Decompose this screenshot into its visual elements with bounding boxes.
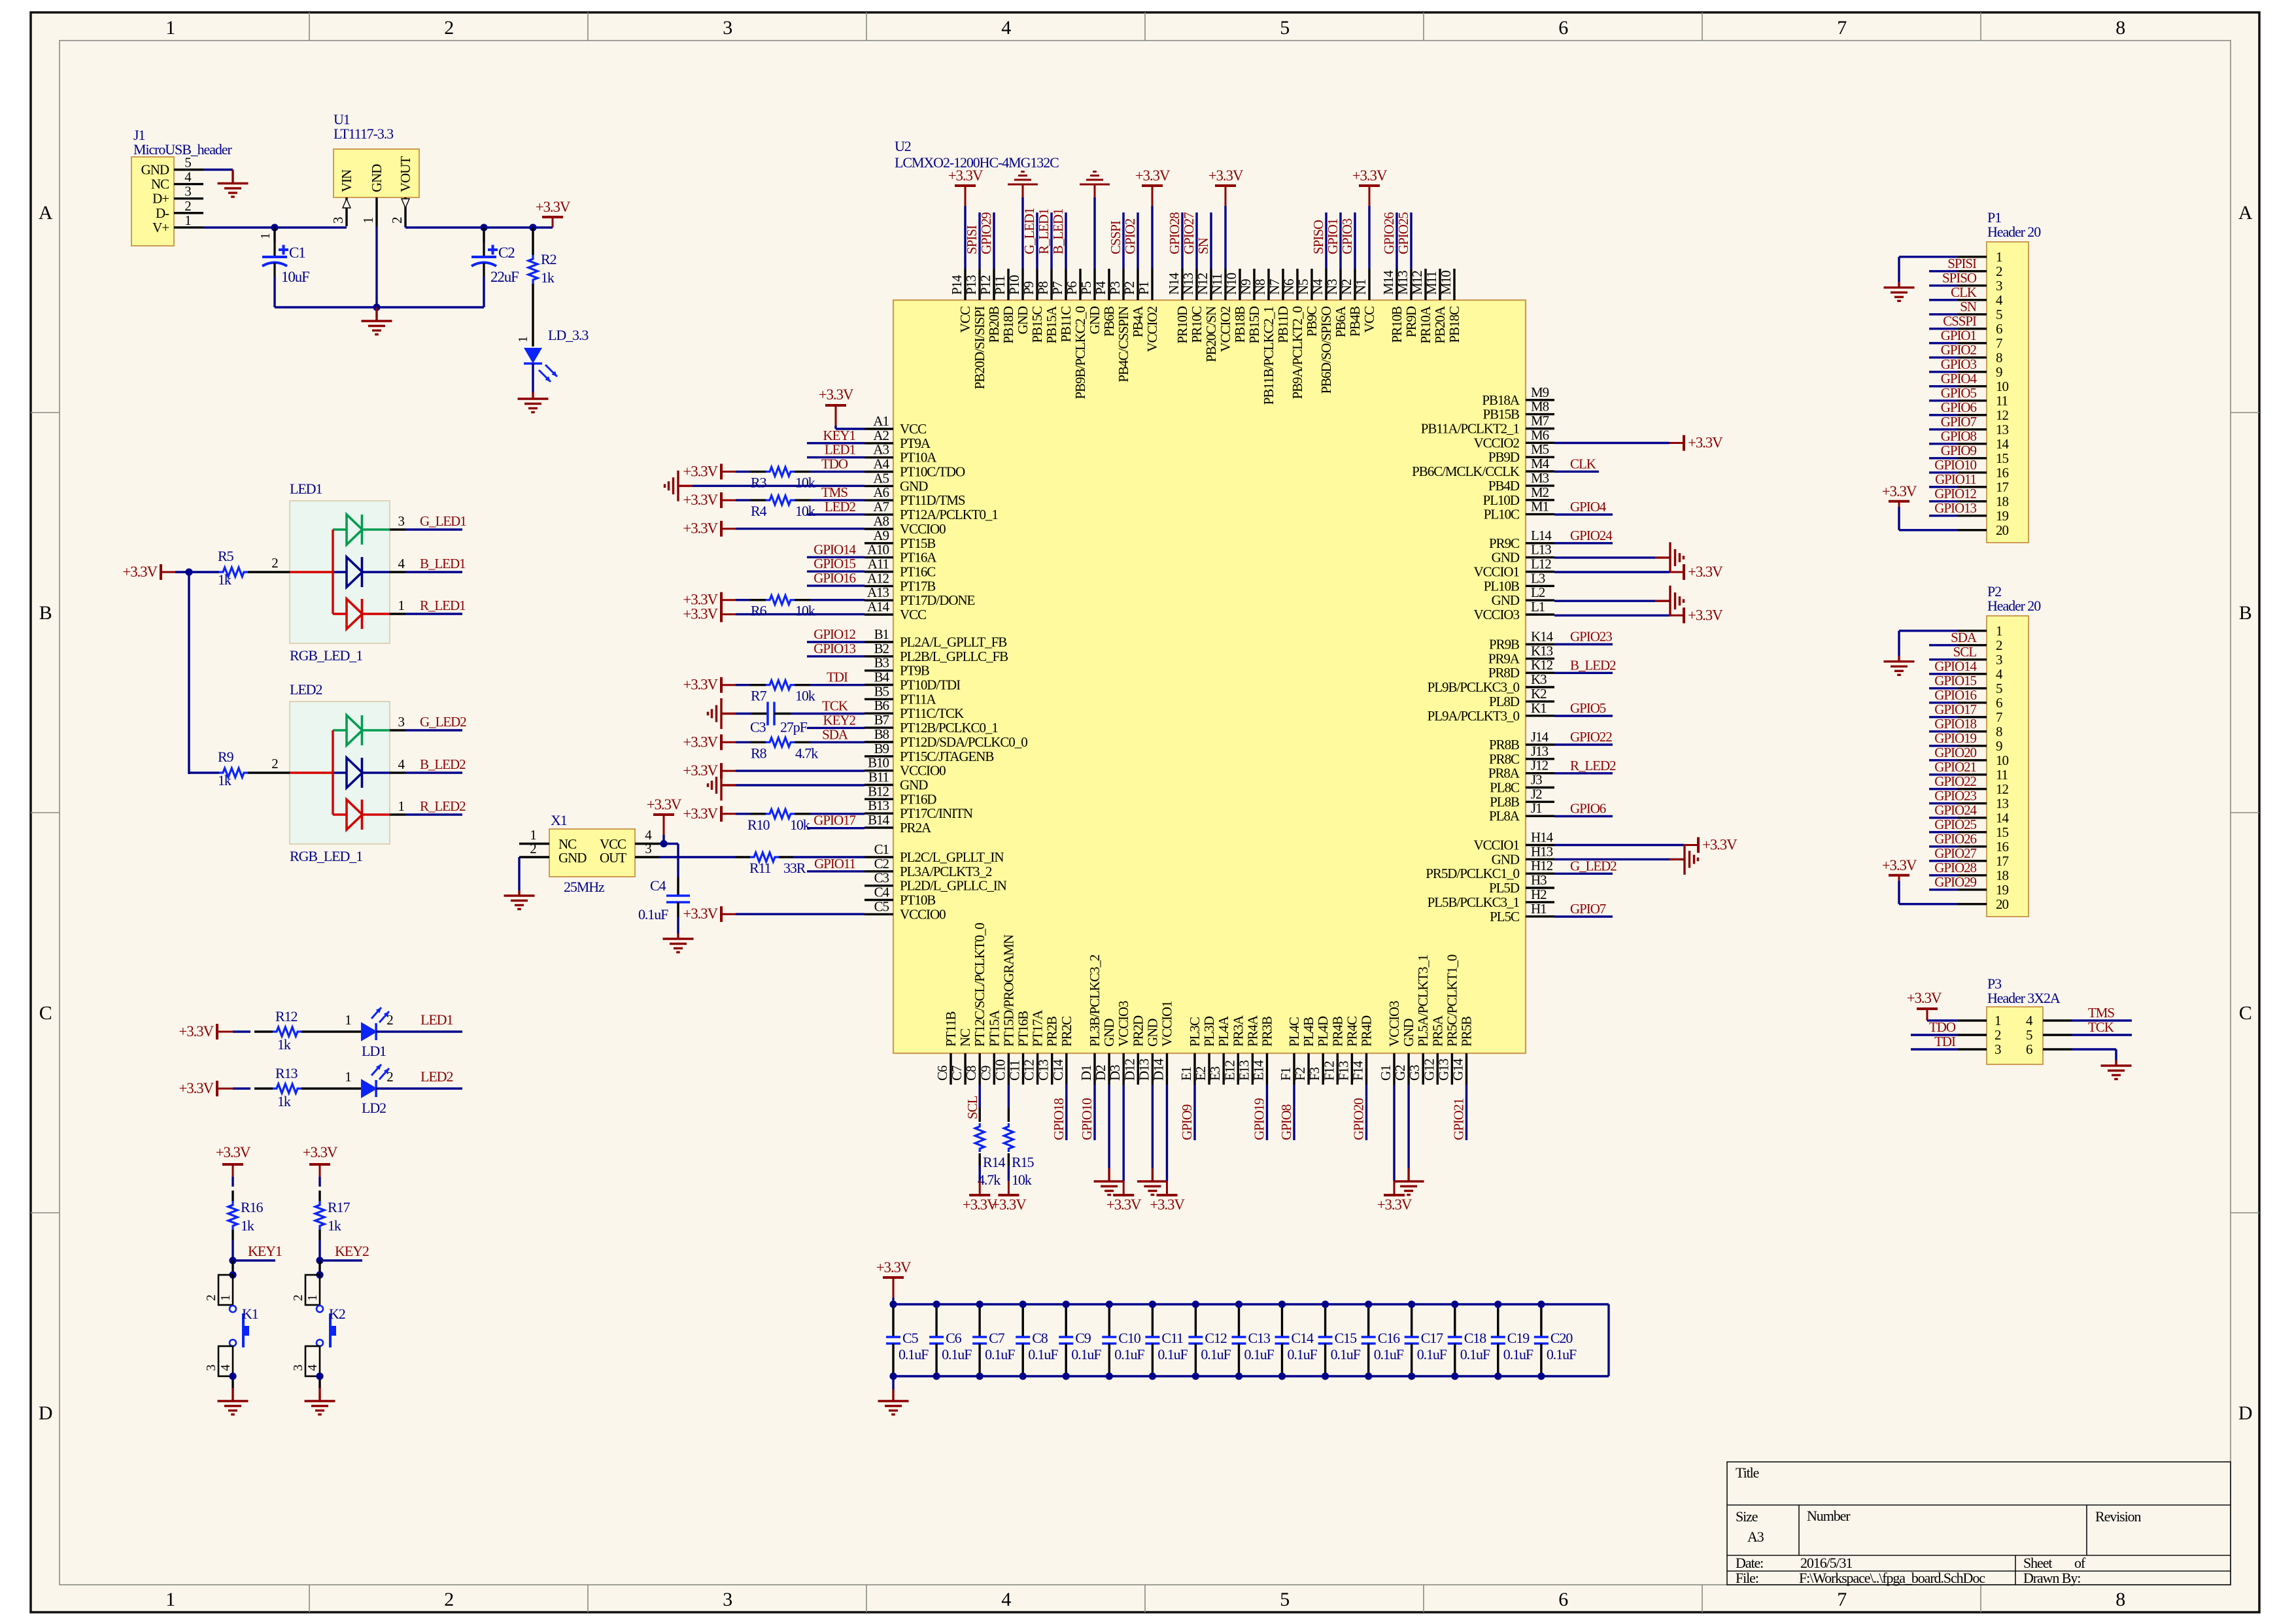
svg-text:D: D <box>39 1402 52 1424</box>
svg-text:LED2: LED2 <box>290 681 322 698</box>
pin E3 (PL4A) <box>1207 1015 1231 1085</box>
pin 13 <box>1958 422 2008 437</box>
junction <box>1365 1300 1372 1308</box>
power +3.3V <box>721 741 736 743</box>
pin M10 (PB18C) <box>1438 269 1462 343</box>
svg-text:+3.3V: +3.3V <box>683 905 718 922</box>
svg-text:P13: P13 <box>963 275 979 295</box>
ground <box>1898 282 1900 288</box>
svg-text:E14: E14 <box>1251 1060 1267 1081</box>
svg-text:3: 3 <box>1994 1041 2001 1057</box>
svg-text:C14: C14 <box>1050 1059 1066 1081</box>
svg-text:PL8A: PL8A <box>1489 808 1520 824</box>
wire B11 GND <box>736 784 865 786</box>
svg-text:K3: K3 <box>1531 671 1547 687</box>
svg-text:PR8D: PR8D <box>1488 665 1520 681</box>
svg-text:GND: GND <box>558 850 587 866</box>
svg-text:C5: C5 <box>902 1330 919 1346</box>
svg-text:D13: D13 <box>1136 1058 1152 1081</box>
svg-text:0.1uF: 0.1uF <box>1028 1346 1058 1362</box>
svg-text:33R: 33R <box>783 860 806 876</box>
svg-text:+3.3V: +3.3V <box>1688 435 1723 451</box>
svg-text:5: 5 <box>1996 681 2002 696</box>
svg-text:G_LED1: G_LED1 <box>1021 208 1037 254</box>
pin H1 (PL5C) <box>1490 901 1554 924</box>
wire pin1 to ground <box>1899 630 1958 632</box>
svg-text:N5: N5 <box>1295 279 1311 295</box>
svg-text:PB4D: PB4D <box>1488 478 1520 494</box>
pin M14 (PR10B) <box>1380 269 1405 343</box>
svg-text:PT12A/PCLKT0_1: PT12A/PCLKT0_1 <box>900 507 998 522</box>
svg-text:GPIO4: GPIO4 <box>1570 499 1607 515</box>
pin C11 (PT16B) <box>1007 1011 1031 1085</box>
svg-text:+3.3V: +3.3V <box>216 1144 251 1160</box>
svg-text:PR8B: PR8B <box>1489 737 1519 753</box>
svg-text:+3.3V: +3.3V <box>1882 483 1917 499</box>
svg-text:C7: C7 <box>989 1330 1005 1346</box>
svg-text:H13: H13 <box>1531 843 1553 859</box>
svg-text:PB9B/PCLKC2_0: PB9B/PCLKC2_0 <box>1072 306 1088 399</box>
svg-text:F14: F14 <box>1350 1060 1366 1081</box>
svg-text:6: 6 <box>1558 17 1568 39</box>
svg-text:P3: P3 <box>1107 281 1123 295</box>
pin E14 (PR3B) <box>1251 1017 1275 1085</box>
pin P6 (PB9B/PCLKC2_0) <box>1064 269 1088 399</box>
svg-text:PL3C: PL3C <box>1187 1017 1203 1047</box>
svg-text:PL3B/PCLKC3_2: PL3B/PCLKC3_2 <box>1087 955 1103 1047</box>
svg-text:LED2: LED2 <box>420 1068 453 1085</box>
svg-text:19: 19 <box>1996 508 2008 524</box>
resistor R6 10k <box>736 596 865 619</box>
svg-text:PB6C/MCLK/CCLK: PB6C/MCLK/CCLK <box>1412 464 1520 479</box>
pin 12 <box>1958 781 2008 797</box>
svg-text:+3.3V: +3.3V <box>683 762 718 779</box>
svg-text:PR9D: PR9D <box>1403 306 1419 337</box>
svg-text:A12: A12 <box>867 570 889 586</box>
svg-text:LD2: LD2 <box>362 1100 386 1116</box>
svg-text:SN: SN <box>1195 237 1211 254</box>
svg-text:9: 9 <box>1996 738 2002 754</box>
svg-text:KEY1: KEY1 <box>248 1243 282 1259</box>
RGB LED LED2 <box>290 681 405 864</box>
svg-text:R_LED2: R_LED2 <box>420 798 466 814</box>
svg-text:N3: N3 <box>1324 279 1340 295</box>
svg-text:C: C <box>39 1002 52 1024</box>
pin 16 <box>1958 465 2008 481</box>
junction <box>1322 1300 1329 1308</box>
svg-text:C12: C12 <box>1205 1330 1226 1346</box>
svg-text:PB20C/SN: PB20C/SN <box>1203 306 1219 362</box>
svg-text:PL10B: PL10B <box>1484 578 1519 594</box>
power +3.3V <box>552 217 554 228</box>
svg-text:GND: GND <box>1087 306 1103 334</box>
resistor R12 1k <box>233 1008 320 1053</box>
svg-text:H3: H3 <box>1531 872 1547 888</box>
ground <box>678 485 693 487</box>
pin N9 (PB15D) <box>1238 269 1262 344</box>
pin B13 (PT17C/INITN) <box>865 798 973 821</box>
svg-text:GND: GND <box>1401 1019 1416 1047</box>
svg-text:GPIO13: GPIO13 <box>813 641 855 656</box>
pin 5 <box>1958 307 2002 322</box>
svg-text:C6: C6 <box>946 1330 962 1346</box>
svg-text:B6: B6 <box>874 698 889 713</box>
resistor R7 10k <box>736 681 865 704</box>
svg-text:TDI: TDI <box>1934 1034 1956 1049</box>
junction <box>1494 1300 1501 1308</box>
svg-text:10k: 10k <box>1012 1172 1032 1188</box>
resistor R4 10k <box>736 496 865 519</box>
svg-text:PT12B/PCLKC0_1: PT12B/PCLKC0_1 <box>900 720 998 736</box>
capacitor C12 0.1uF <box>1188 1304 1231 1376</box>
power +3.3V <box>835 405 837 426</box>
pin P4 (PB6B) <box>1093 269 1117 337</box>
svg-text:1k: 1k <box>328 1217 341 1234</box>
junction <box>1063 1300 1070 1308</box>
svg-text:C20: C20 <box>1550 1330 1573 1346</box>
svg-text:P4: P4 <box>1093 280 1108 295</box>
wire H13 GND <box>1554 858 1669 860</box>
pin M9 (PB18A) <box>1482 384 1554 408</box>
ground <box>1021 197 1023 269</box>
svg-text:PR4B: PR4B <box>1329 1017 1345 1047</box>
svg-text:GPIO17: GPIO17 <box>813 813 855 828</box>
svg-text:A6: A6 <box>873 484 889 500</box>
svg-text:R8: R8 <box>751 745 767 761</box>
svg-text:PT16D: PT16D <box>900 791 936 807</box>
svg-text:P1: P1 <box>1136 281 1152 295</box>
pin C10 (PT15D/PROGRAMN) <box>992 934 1016 1085</box>
svg-text:GPIO27: GPIO27 <box>1934 845 1976 861</box>
svg-text:4: 4 <box>398 756 405 772</box>
pin 4 <box>1958 666 2003 682</box>
svg-text:C3: C3 <box>874 870 889 886</box>
svg-text:8: 8 <box>2115 1589 2125 1610</box>
svg-text:PR5B: PR5B <box>1459 1017 1475 1047</box>
svg-text:PT16A: PT16A <box>900 550 937 566</box>
svg-text:M1: M1 <box>1531 499 1549 515</box>
svg-text:SCL: SCL <box>965 1096 980 1119</box>
svg-text:R10: R10 <box>747 817 770 833</box>
svg-text:GPIO16: GPIO16 <box>813 570 855 586</box>
svg-text:PR10D: PR10D <box>1174 306 1190 343</box>
svg-text:C9: C9 <box>978 1066 993 1081</box>
svg-text:PT17B: PT17B <box>900 578 935 594</box>
svg-text:GPIO7: GPIO7 <box>1941 414 1977 430</box>
svg-text:VCC: VCC <box>1361 307 1377 333</box>
svg-text:C19: C19 <box>1507 1330 1530 1346</box>
svg-text:C4: C4 <box>874 885 890 900</box>
svg-text:+3.3V: +3.3V <box>1688 564 1723 580</box>
LED LD1 <box>320 1007 393 1059</box>
svg-text:+3.3V: +3.3V <box>1688 607 1723 623</box>
capacitor C19 0.1uF <box>1491 1304 1533 1376</box>
svg-text:R5: R5 <box>218 548 234 564</box>
svg-text:B11: B11 <box>868 770 889 785</box>
svg-text:C10: C10 <box>1118 1330 1140 1346</box>
svg-text:D2: D2 <box>1093 1065 1108 1081</box>
power +3.3V <box>1225 186 1227 206</box>
pin 13 <box>1958 796 2008 811</box>
svg-text:1k: 1k <box>277 1093 291 1109</box>
svg-text:A10: A10 <box>867 542 889 558</box>
svg-text:PT11C/TCK: PT11C/TCK <box>900 705 964 721</box>
svg-text:C14: C14 <box>1292 1330 1314 1346</box>
wire OUT to R11 <box>659 856 736 858</box>
svg-text:PT15D/PROGRAMN: PT15D/PROGRAMN <box>1001 934 1016 1047</box>
svg-text:R3: R3 <box>751 474 767 490</box>
svg-text:C: C <box>2239 1002 2251 1024</box>
svg-text:VCCIO3: VCCIO3 <box>1386 1001 1402 1047</box>
pin K3 (PL9B/PCLKC3_0) <box>1428 671 1554 695</box>
pin labels LED1 <box>398 513 467 614</box>
pin 3 <box>1958 652 2002 668</box>
svg-text:5: 5 <box>184 155 191 171</box>
wire U1 GND <box>375 226 377 307</box>
junction <box>1278 1300 1286 1308</box>
svg-text:P8: P8 <box>1035 281 1051 295</box>
svg-text:PB18C: PB18C <box>1447 307 1462 343</box>
svg-text:K1: K1 <box>1531 700 1547 716</box>
svg-text:GPIO3: GPIO3 <box>1941 356 1977 372</box>
svg-text:K12: K12 <box>1531 657 1553 673</box>
LED LD2 <box>320 1064 393 1116</box>
svg-text:M10: M10 <box>1438 271 1454 295</box>
svg-text:C2: C2 <box>498 245 515 261</box>
svg-text:PL5C: PL5C <box>1490 909 1519 924</box>
pin A13 (PT17D/DONE) <box>865 584 975 608</box>
svg-text:PL9A/PCLKT3_0: PL9A/PCLKT3_0 <box>1428 708 1520 724</box>
svg-text:GPIO23: GPIO23 <box>1934 788 1976 804</box>
svg-text:G12: G12 <box>1421 1058 1437 1081</box>
LED LD_3.3 <box>516 327 589 392</box>
svg-text:2: 2 <box>291 1295 305 1301</box>
svg-text:L2: L2 <box>1531 584 1545 600</box>
resistor R2 1k <box>528 228 556 347</box>
svg-text:F13: F13 <box>1335 1061 1351 1081</box>
svg-text:4: 4 <box>1996 292 2003 308</box>
svg-text:KEY2: KEY2 <box>335 1243 369 1259</box>
wire C5 VCCIO0 <box>736 913 865 915</box>
junction <box>271 224 278 231</box>
svg-text:PR8A: PR8A <box>1488 766 1520 781</box>
svg-text:GPIO9: GPIO9 <box>1179 1104 1195 1140</box>
svg-text:G1: G1 <box>1378 1065 1394 1081</box>
svg-text:20: 20 <box>1996 896 2008 912</box>
svg-text:+3.3V: +3.3V <box>122 564 158 580</box>
svg-text:A11: A11 <box>868 556 889 572</box>
svg-text:+3.3V: +3.3V <box>683 463 718 479</box>
svg-text:PB20A: PB20A <box>1432 305 1448 343</box>
pin C12 (PT17A) <box>1021 1009 1046 1085</box>
pin E13 (PR4A) <box>1236 1015 1260 1085</box>
svg-text:3: 3 <box>398 714 405 730</box>
svg-text:4: 4 <box>1996 666 2003 682</box>
svg-text:E3: E3 <box>1207 1066 1223 1081</box>
svg-text:GPIO26: GPIO26 <box>1381 212 1397 254</box>
svg-text:1: 1 <box>258 233 273 239</box>
svg-text:Header 20: Header 20 <box>1987 598 2041 614</box>
pin C2 (PL3A/PCLKT3_2) <box>865 856 992 879</box>
wire V+ <box>203 226 347 228</box>
svg-text:PR5A: PR5A <box>1429 1015 1445 1047</box>
pin K14 (PR9B) <box>1489 629 1554 652</box>
pin M5 (PB9D) <box>1488 441 1554 465</box>
svg-text:PL2B/L_GPLLC_FB: PL2B/L_GPLLC_FB <box>900 649 1008 664</box>
svg-text:PT11A: PT11A <box>900 691 937 707</box>
pin A4 (PT10C/TDO) <box>865 456 965 480</box>
pin K13 (PR9A) <box>1488 643 1554 666</box>
capacitor C17 0.1uF <box>1405 1304 1447 1376</box>
svg-text:GPIO10: GPIO10 <box>1079 1098 1095 1140</box>
svg-text:D+: D+ <box>152 191 169 207</box>
pin 17 <box>1958 853 2008 869</box>
svg-text:KEY1: KEY1 <box>823 428 856 443</box>
pin C4 (PT10B) <box>865 885 935 908</box>
svg-text:R7: R7 <box>751 688 767 704</box>
svg-text:P6: P6 <box>1064 281 1080 295</box>
pin B10 (VCCIO0) <box>865 755 946 779</box>
svg-text:GPIO17: GPIO17 <box>1934 702 1976 717</box>
svg-text:PR9A: PR9A <box>1488 651 1520 666</box>
pin B9 (PT15C/JTAGENB) <box>865 741 993 764</box>
svg-text:TDI: TDI <box>827 669 848 685</box>
svg-text:J1: J1 <box>1531 800 1542 816</box>
svg-text:+3.3V: +3.3V <box>179 1023 214 1040</box>
pin A2 (PT9A) <box>865 428 931 451</box>
svg-text:7: 7 <box>1837 1589 1847 1610</box>
pin H3 (PL5D) <box>1489 872 1554 896</box>
pin 8 <box>1958 350 2002 365</box>
pin 10 <box>1958 753 2008 768</box>
svg-text:0.1uF: 0.1uF <box>1547 1346 1577 1362</box>
svg-text:0.1uF: 0.1uF <box>1503 1346 1533 1362</box>
pin 7 <box>1958 335 2002 351</box>
pin B11 (GND) <box>865 770 928 793</box>
capacitor C3 27pF <box>736 702 865 736</box>
junction <box>976 1300 984 1308</box>
wire X1 GND <box>518 857 520 890</box>
pin E12 (PR3A) <box>1222 1015 1246 1085</box>
svg-text:PB11B/PCLKC2_1: PB11B/PCLKC2_1 <box>1261 306 1276 405</box>
svg-text:G_LED2: G_LED2 <box>1570 858 1617 873</box>
ground <box>1152 1168 1154 1181</box>
svg-text:2: 2 <box>1994 1027 2001 1043</box>
pin J12 (PR8A) <box>1488 758 1554 781</box>
svg-text:GPIO19: GPIO19 <box>1252 1098 1267 1140</box>
svg-text:8: 8 <box>2115 17 2125 39</box>
svg-text:J14: J14 <box>1531 729 1549 745</box>
power +3.3V <box>721 599 736 601</box>
svg-text:D12: D12 <box>1121 1058 1137 1081</box>
pin P12 (PB20B) <box>978 269 1002 343</box>
svg-text:+3.3V: +3.3V <box>876 1259 912 1276</box>
svg-text:K14: K14 <box>1531 629 1554 645</box>
svg-text:GPIO14: GPIO14 <box>813 541 856 557</box>
svg-text:1: 1 <box>345 1012 351 1028</box>
svg-text:PR5C/PCLKT1_0: PR5C/PCLKT1_0 <box>1444 955 1460 1047</box>
svg-text:C11: C11 <box>1007 1060 1023 1081</box>
svg-text:PT9A: PT9A <box>900 435 931 451</box>
svg-text:PR8C: PR8C <box>1489 751 1519 767</box>
pin L3 (PL10B) <box>1484 570 1554 594</box>
svg-text:E1: E1 <box>1178 1066 1194 1081</box>
svg-text:PB9A/PCLKT2_0: PB9A/PCLKT2_0 <box>1290 306 1305 399</box>
svg-text:M3: M3 <box>1531 470 1549 486</box>
svg-text:R15: R15 <box>1012 1154 1034 1170</box>
svg-text:SDA: SDA <box>822 726 849 742</box>
svg-text:C8: C8 <box>963 1066 979 1081</box>
svg-text:+3.3V: +3.3V <box>1882 857 1917 873</box>
pin P7 (PB11C) <box>1050 269 1074 343</box>
svg-text:2: 2 <box>271 756 278 771</box>
svg-text:3: 3 <box>723 17 732 39</box>
ground <box>892 1376 894 1389</box>
switch K2 <box>291 1260 345 1388</box>
svg-text:GPIO6: GPIO6 <box>1570 801 1606 817</box>
svg-text:PL4B: PL4B <box>1301 1017 1316 1047</box>
pin B14 (PR2A) <box>865 812 932 836</box>
svg-text:0.1uF: 0.1uF <box>1244 1346 1275 1362</box>
svg-text:22uF: 22uF <box>490 269 519 285</box>
svg-text:C6: C6 <box>934 1066 950 1081</box>
svg-text:17: 17 <box>1996 853 2008 869</box>
pin G14 (PR5B) <box>1450 1017 1475 1085</box>
pin N3 (PB6A) <box>1324 269 1348 337</box>
pin 20 <box>1958 896 2008 912</box>
svg-text:PT10A: PT10A <box>900 450 937 465</box>
svg-text:10uF: 10uF <box>281 269 309 285</box>
svg-text:1: 1 <box>1996 249 2002 265</box>
svg-text:R9: R9 <box>218 749 234 765</box>
junction <box>185 568 192 575</box>
svg-text:10k: 10k <box>795 603 815 619</box>
svg-text:G_LED1: G_LED1 <box>420 513 466 529</box>
svg-text:X1: X1 <box>551 812 567 828</box>
junction <box>1235 1300 1242 1308</box>
pin 14 <box>1958 810 2009 826</box>
pin N14 (PR10D) <box>1166 269 1190 344</box>
svg-text:J2: J2 <box>1531 786 1542 802</box>
pin 8 <box>1958 724 2002 739</box>
svg-text:C8: C8 <box>1032 1330 1048 1346</box>
pin 17 <box>1958 479 2008 495</box>
junction <box>480 224 487 231</box>
svg-text:18: 18 <box>1996 494 2008 509</box>
svg-text:0.1uF: 0.1uF <box>1071 1346 1101 1362</box>
svg-text:SCL: SCL <box>1953 644 1977 660</box>
pin K1 (PL9A/PCLKT3_0) <box>1428 700 1554 724</box>
svg-text:TMS: TMS <box>2088 1005 2114 1021</box>
connector P1 Header 20 <box>1987 209 2041 543</box>
svg-text:GND: GND <box>1492 592 1520 608</box>
ground <box>375 307 377 321</box>
pin M6 (VCCIO2) <box>1473 427 1554 450</box>
power +3.3V <box>721 528 736 530</box>
svg-text:Header 3X2A: Header 3X2A <box>1987 990 2061 1006</box>
svg-text:12: 12 <box>1996 407 2008 423</box>
pin A1 (VCC) <box>865 413 926 437</box>
svg-text:PR3A: PR3A <box>1230 1015 1246 1047</box>
pin B4 (PT10D/TDI) <box>865 669 961 693</box>
capacitor C5 0.1uF <box>886 1304 929 1376</box>
ground <box>1093 197 1095 269</box>
svg-text:9: 9 <box>1996 364 2002 380</box>
svg-text:F1: F1 <box>1278 1067 1293 1081</box>
junction <box>1106 1300 1113 1308</box>
svg-text:7: 7 <box>1837 17 1847 39</box>
svg-text:N2: N2 <box>1339 279 1354 295</box>
